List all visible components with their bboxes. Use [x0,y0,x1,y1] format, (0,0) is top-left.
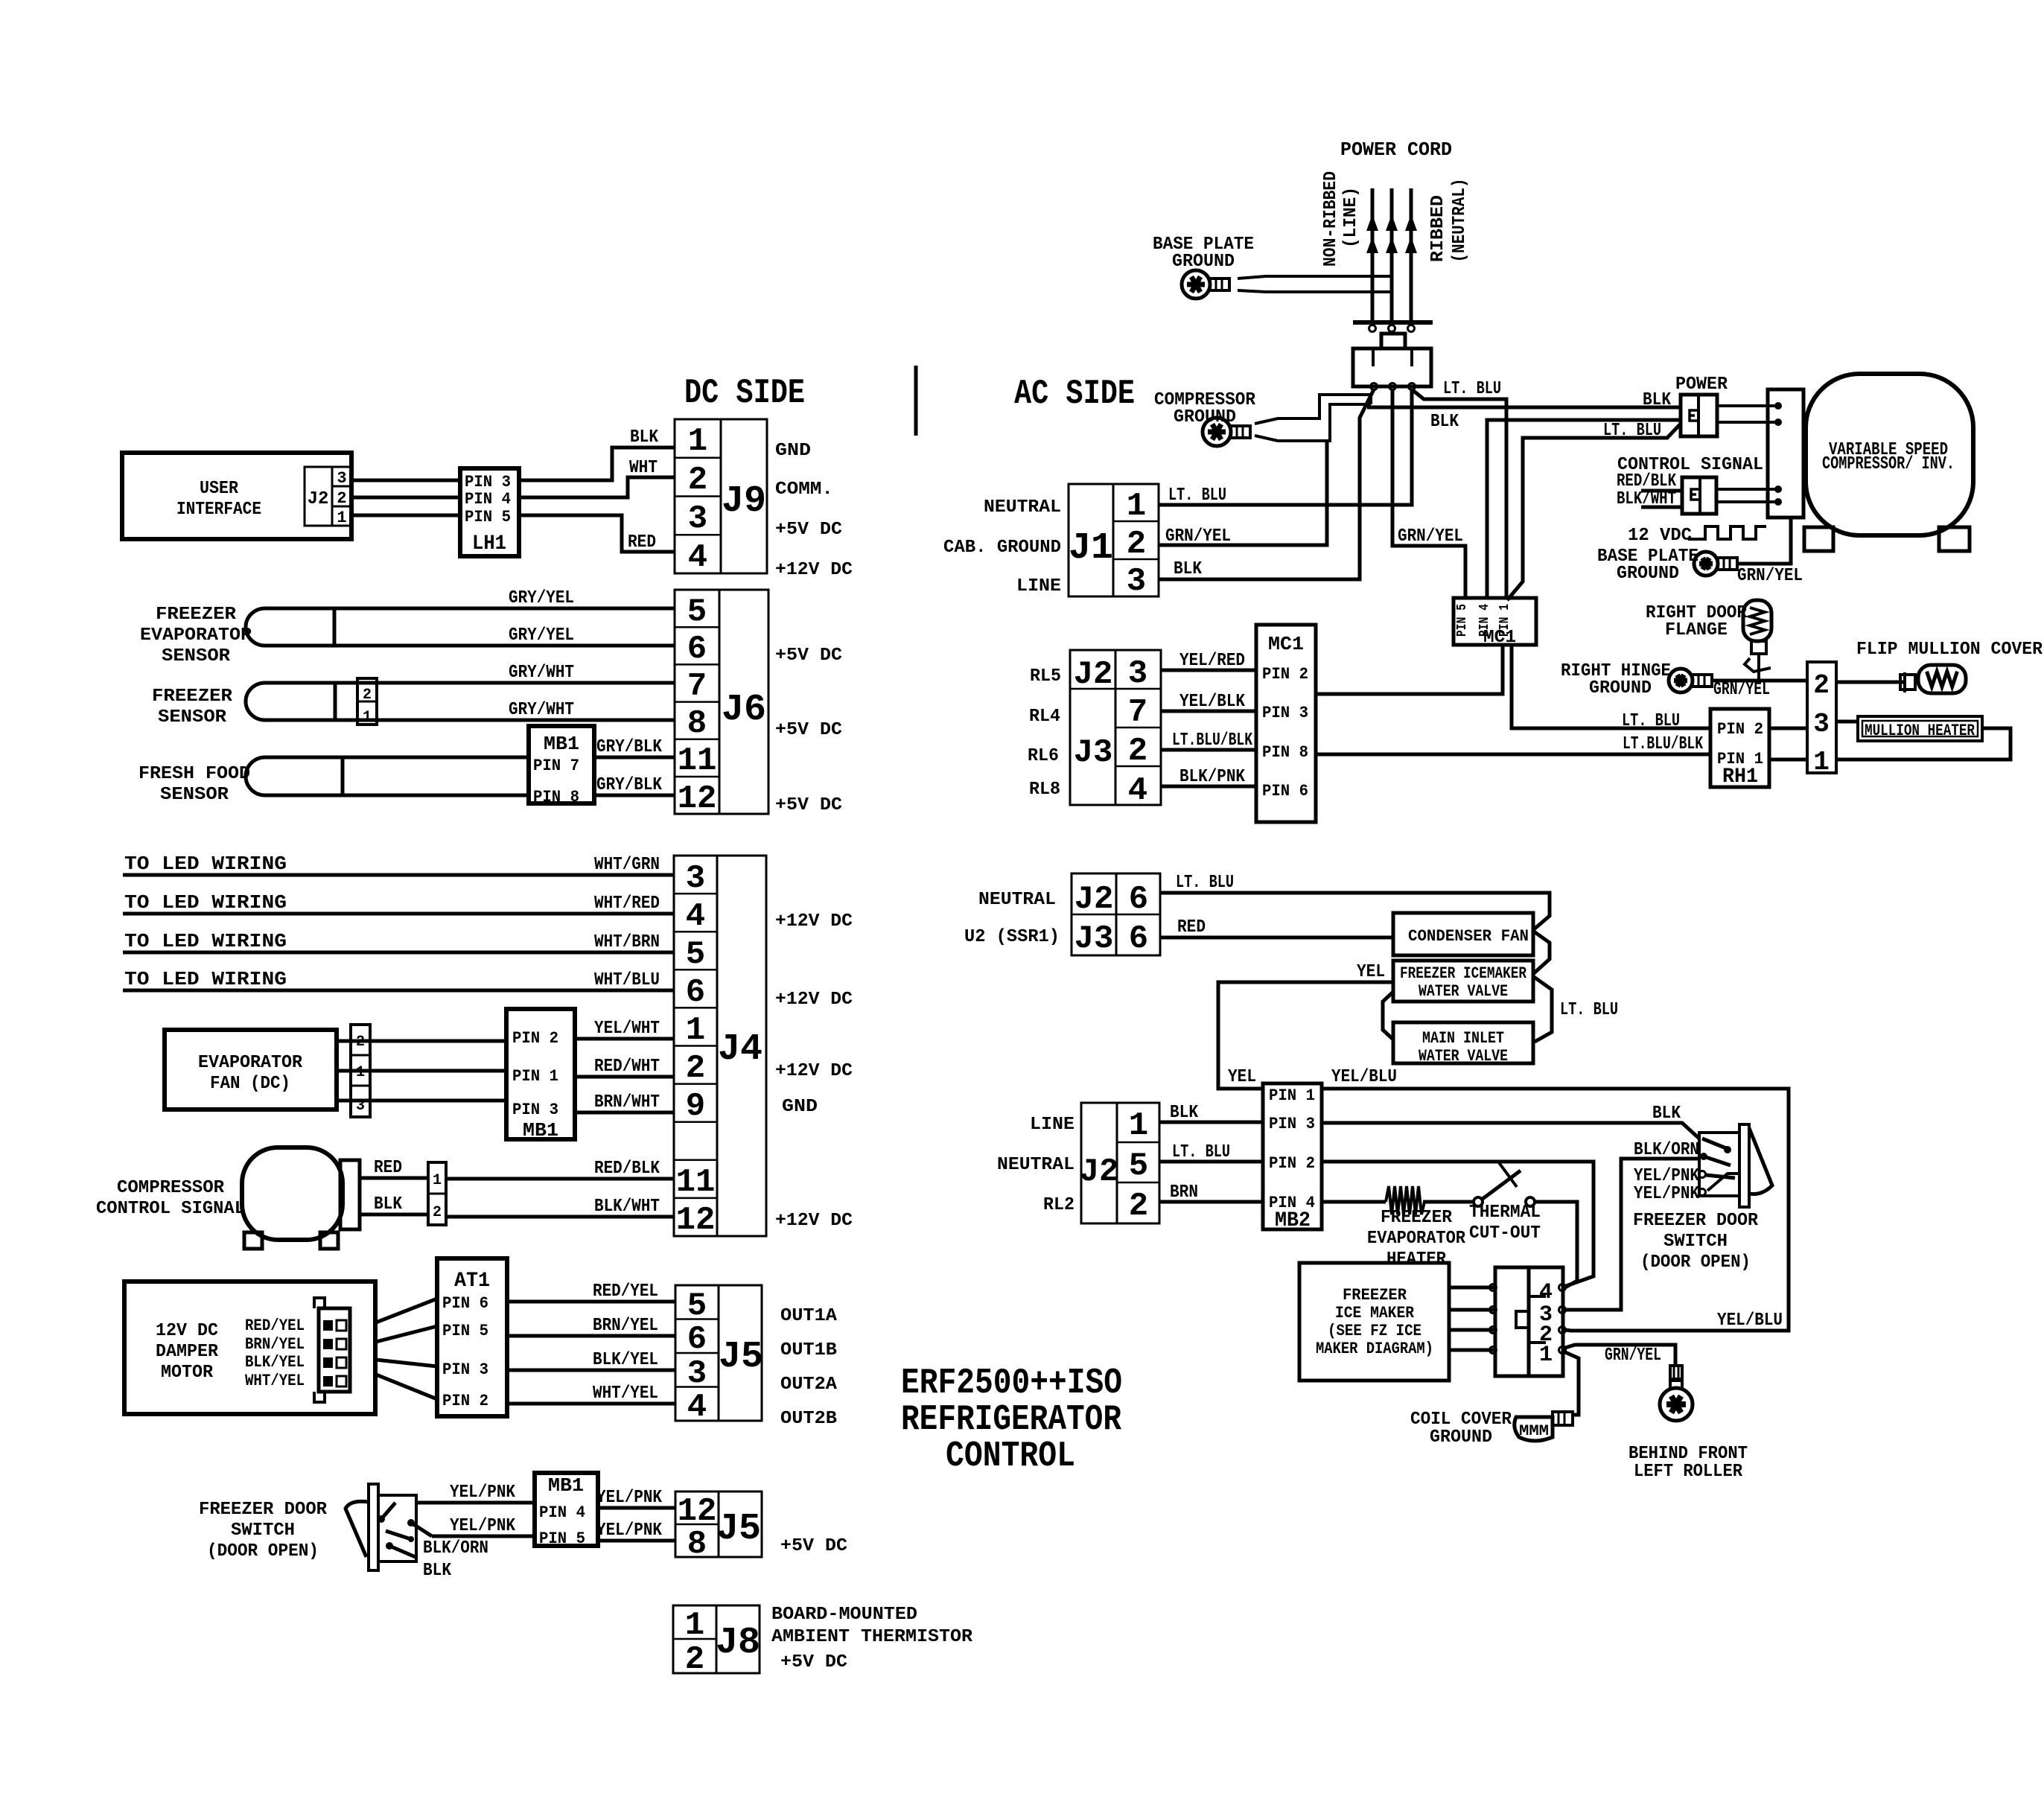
svg-text:BOARD-MOUNTED: BOARD-MOUNTED [771,1605,917,1625]
svg-text:OUT1A: OUT1A [780,1306,838,1326]
svg-text:PIN 1: PIN 1 [512,1067,558,1086]
wire LT. BLU MC1 loop to power relay [1507,424,1681,600]
svg-text:RED: RED [1177,917,1206,937]
svg-text:8: 8 [687,705,707,742]
svg-text:ERF2500++ISO: ERF2500++ISO [901,1363,1122,1404]
svg-text:LT.BLU/BLK: LT.BLU/BLK [1623,734,1703,754]
svg-text:WATER VALVE: WATER VALVE [1419,982,1508,1001]
svg-text:5: 5 [686,936,705,973]
svg-text:1: 1 [688,423,707,460]
wires evaporator fan to MB1 [337,1040,506,1043]
svg-text:BLK: BLK [1430,412,1459,432]
svg-text:DAMPER: DAMPER [156,1342,219,1362]
svg-text:TO LED WIRING: TO LED WIRING [124,930,287,952]
svg-text:2: 2 [685,1641,704,1678]
svg-text:+5V DC: +5V DC [775,795,842,815]
svg-text:12: 12 [676,1202,716,1239]
svg-text:BLK/ORN: BLK/ORN [423,1538,488,1559]
icemaker connector [1495,1267,1529,1376]
svg-text:3: 3 [686,860,705,897]
svg-text:4: 4 [687,1389,707,1426]
svg-text:YEL/RED: YEL/RED [1179,651,1245,671]
wire LT.BLU/BLK MC1 PIN 8 to RH1 PIN 1 [1316,753,1710,757]
svg-text:PIN 2: PIN 2 [1262,665,1308,684]
svg-text:RL6: RL6 [1028,746,1059,766]
svg-text:FAN (DC): FAN (DC) [210,1074,290,1094]
svg-text:BRN/WHT: BRN/WHT [594,1092,660,1112]
svg-text:6: 6 [687,631,707,668]
wire RED LH1 PIN5 to J9-4 [519,515,675,552]
svg-text:(DOOR OPEN): (DOOR OPEN) [207,1541,319,1561]
connector MB1 (sensor) [529,726,594,803]
svg-text:FLIP MULLION COVER: FLIP MULLION COVER [1856,640,2043,660]
svg-text:YEL/PNK: YEL/PNK [450,1483,516,1503]
wire BLK LH1 PIN3 to J9-1 [519,448,675,480]
connector J2/J3 relays [1070,650,1161,805]
svg-text:RIBBED: RIBBED [1428,195,1448,262]
svg-text:COIL COVER: COIL COVER [1410,1410,1512,1430]
wire GRN/YEL icemaker pin 1 to roller ground [1565,1345,1675,1366]
svg-text:+5V DC: +5V DC [775,520,842,540]
wire GRY/WHT sensor to J6-7 [335,681,675,685]
svg-text:(NEUTRAL): (NEUTRAL) [1450,179,1470,263]
variable speed compressor blob [1806,374,1973,535]
svg-text:WHT/YEL: WHT/YEL [593,1384,658,1404]
svg-text:3: 3 [1813,709,1830,739]
wire line contact to J1-3 (BLK) [1159,389,1374,579]
wire YEL/RED J2-3 to MC1 PIN 2 [1161,669,1256,672]
svg-text:BLK: BLK [1174,559,1203,579]
svg-text:4: 4 [686,898,705,935]
wire BLK to inline connector [360,1213,428,1217]
svg-text:6: 6 [1129,881,1148,918]
wire RED to inline connector [360,1177,428,1180]
wire RH1 PIN1 to connector-1 row [1769,758,1807,762]
svg-text:FREEZER DOOR: FREEZER DOOR [1633,1211,1759,1231]
wire WHT/YEL AT1 to J5-4 [507,1402,675,1406]
coil cover ground symbol [1515,1417,1553,1441]
svg-text:J2: J2 [1080,1153,1119,1191]
svg-text:WHT/BRN: WHT/BRN [594,932,660,952]
svg-text:+5V DC: +5V DC [780,1652,847,1672]
svg-text:PIN 7: PIN 7 [533,757,579,775]
svg-text:2: 2 [1128,733,1147,770]
svg-text:GROUND: GROUND [1589,678,1652,698]
svg-text:RH1: RH1 [1722,765,1758,789]
wire GRY/YEL sensor to J6-6 [334,644,675,648]
svg-text:NEUTRAL: NEUTRAL [984,497,1061,518]
wire LT. BLU neutral contact to MC1 PIN 1 [1412,389,1506,598]
svg-text:YEL/PNK: YEL/PNK [450,1516,516,1536]
svg-text:AC SIDE: AC SIDE [1014,375,1135,413]
svg-text:OUT2A: OUT2A [780,1375,838,1395]
svg-text:3: 3 [688,500,707,538]
svg-text:12: 12 [678,780,717,818]
svg-text:+5V DC: +5V DC [775,720,842,740]
power relay [1681,395,1717,436]
svg-text:LEFT ROLLER: LEFT ROLLER [1634,1462,1743,1482]
wire WHT/BLU to J4 [123,989,674,993]
svg-text:J1: J1 [1069,527,1113,570]
svg-text:CONDENSER FAN: CONDENSER FAN [1408,927,1529,946]
wire BRN J2-2 to MB2 PIN 4 [1159,1200,1263,1204]
svg-text:J3: J3 [1074,920,1114,958]
wire LT. BLU J2-6 to condenser fan bracket [1160,893,1550,929]
svg-text:GND: GND [775,441,811,461]
svg-text:RED: RED [628,532,656,553]
svg-text:GRN/YEL: GRN/YEL [1737,566,1803,586]
connector AT1 [437,1258,507,1416]
mullion heater box [1858,716,1982,741]
freezer door switch symbol (AC) [1699,1133,1739,1196]
svg-text:+12V DC: +12V DC [775,911,853,932]
wire J2-3 to LH1 PIN 3 [351,479,460,483]
svg-text:FREEZER: FREEZER [1343,1286,1407,1305]
svg-text:LT. BLU: LT. BLU [1443,379,1501,399]
svg-text:1: 1 [1127,488,1146,525]
freezer sensor bulb [246,683,265,720]
wire GRY/BLK MB1 PIN8 to J6-12 [594,794,675,797]
svg-text:5: 5 [687,1287,707,1325]
wire BRN MB2 PIN4 to freezer evaporator heater [1322,1200,1386,1204]
svg-text:J2: J2 [308,489,329,509]
wire LT.BLU/BLK to MC1 PIN 8 [1161,748,1256,752]
svg-text:RED/BLK: RED/BLK [594,1159,660,1179]
svg-text:PIN 3: PIN 3 [1262,704,1308,722]
svg-text:FREEZER DOOR: FREEZER DOOR [199,1500,328,1520]
svg-text:(LINE): (LINE) [1341,187,1361,248]
control relay contacts to compressor connector [1716,488,1778,491]
svg-text:PIN 1: PIN 1 [1269,1086,1315,1105]
svg-text:BLK: BLK [1170,1103,1199,1123]
svg-text:RL5: RL5 [1030,666,1061,687]
svg-text:6: 6 [687,1321,707,1358]
wires fresh food sensor to MB1 [343,756,529,760]
svg-text:LT. BLU: LT. BLU [1560,1000,1618,1020]
svg-text:NEUTRAL: NEUTRAL [978,890,1056,910]
svg-text:PIN 5: PIN 5 [442,1322,488,1340]
svg-text:4: 4 [688,539,707,576]
freezer ice maker box [1299,1263,1449,1381]
wire RED/BLK to J4-11 [446,1177,674,1181]
wire BLK MC1 PIN4 to power relay [1487,420,1681,598]
wire WHT LH1 PIN4 to J9-2 [519,477,675,497]
svg-text:YEL/PNK: YEL/PNK [1634,1184,1700,1204]
wires damper motor to AT1 [376,1299,437,1322]
freezer evaporator sensor bulb [246,608,265,646]
wire RED J3-6 to condenser fan [1160,936,1393,940]
svg-text:RL8: RL8 [1029,780,1060,800]
svg-text:SENSOR: SENSOR [160,785,229,805]
svg-text:3: 3 [1127,563,1146,600]
svg-text:6: 6 [686,974,705,1011]
svg-text:LH1: LH1 [472,532,506,555]
connector MB2 [1263,1083,1322,1229]
evaporator fan box [165,1030,337,1109]
svg-text:PIN 2: PIN 2 [512,1029,558,1048]
svg-text:MAIN INLET: MAIN INLET [1422,1029,1504,1048]
power cord terminal bar [1353,320,1433,325]
svg-text:OUT1B: OUT1B [780,1340,837,1360]
wire BRN/WHT MB1 to J4-9 [575,1111,674,1115]
wire GRN/YEL base plate ground to compressor connector [1737,516,1791,564]
wire BLK/WHT into control relay [1641,506,1682,509]
connector J6 [675,590,768,814]
bracket linking water valve feeds [1383,992,1393,1040]
svg-text:PIN 2: PIN 2 [442,1392,488,1410]
svg-text:PIN 6: PIN 6 [1262,782,1308,800]
svg-text:1: 1 [1539,1343,1553,1368]
svg-text:1: 1 [337,509,346,527]
svg-text:RED/BLK: RED/BLK [1617,471,1676,491]
condenser fan box [1393,913,1533,955]
svg-text:3: 3 [687,1355,707,1392]
svg-text:BLK: BLK [374,1194,403,1214]
compressor connector box [1768,389,1803,518]
svg-text:YEL/PNK: YEL/PNK [596,1521,663,1541]
svg-text:MB2: MB2 [1275,1209,1311,1232]
svg-text:TO LED WIRING: TO LED WIRING [124,853,287,875]
svg-text:BLK: BLK [423,1561,452,1581]
svg-text:MAKER DIAGRAM): MAKER DIAGRAM) [1316,1340,1433,1358]
svg-text:RL2: RL2 [1043,1195,1074,1215]
svg-text:GROUND: GROUND [1430,1427,1492,1448]
svg-text:BLK: BLK [1643,390,1672,410]
hollow ground wire to power cord [1238,276,1392,278]
connector MB1 (fan) [506,1009,575,1139]
wire GRN/YEL J1-2 up to ground wire [1159,441,1327,545]
svg-text:BLK: BLK [630,427,659,448]
wires ice maker to connector [1449,1286,1495,1290]
svg-text:LT. BLU: LT. BLU [1622,711,1680,731]
svg-text:GRY/WHT: GRY/WHT [509,700,574,720]
svg-text:FREEZER: FREEZER [1381,1208,1453,1228]
svg-text:(DOOR OPEN): (DOOR OPEN) [1640,1252,1751,1273]
svg-text:RED/WHT: RED/WHT [594,1057,660,1077]
svg-text:PIN 4: PIN 4 [465,490,511,509]
wire WHT/RED to J4 [123,912,674,916]
connector MB1 (door switch) [535,1473,598,1546]
svg-text:PIN 3: PIN 3 [442,1360,488,1379]
svg-text:2: 2 [363,687,372,704]
svg-text:11: 11 [678,742,717,780]
svg-text:COMPRESSOR: COMPRESSOR [117,1178,225,1198]
thermal cut-out switch [1474,1197,1483,1206]
wire GRY/WHT sensor to J6-8 [335,719,675,722]
wire RED/WHT MB1 to J4-2 [575,1075,674,1079]
svg-text:FRESH FOOD: FRESH FOOD [139,764,250,784]
wire YEL/PNK MB1 to J5-8 [598,1539,675,1543]
svg-text:MB1: MB1 [544,733,579,755]
svg-text:2: 2 [1129,1188,1148,1225]
connector J1 [1069,484,1159,596]
svg-text:FREEZER ICEMAKER: FREEZER ICEMAKER [1400,964,1527,983]
connector RH1 [1710,709,1769,787]
wire WHT/BRN to J4 [123,951,674,955]
svg-text:2: 2 [337,489,346,508]
svg-text:GRN/YEL: GRN/YEL [1605,1346,1661,1366]
svg-text:HEATER: HEATER [1386,1249,1447,1270]
power cord ground wire [1390,188,1394,322]
svg-text:2: 2 [686,1050,705,1087]
svg-text:WHT/BLU: WHT/BLU [594,970,660,990]
svg-text:3: 3 [1128,655,1147,693]
user interface box [122,453,351,539]
svg-text:7: 7 [1128,694,1147,731]
wire LT. BLU MC1 power to RH1 PIN 2 [1512,645,1710,728]
wire connector-3 to mullion heater [1836,720,1858,724]
wire GRN/YEL ground contact down [1392,389,1465,598]
svg-text:2: 2 [433,1204,442,1221]
svg-text:12 VDC: 12 VDC [1628,526,1692,546]
connector J8 [673,1605,760,1673]
svg-text:MC1: MC1 [1483,628,1516,648]
svg-text:J4: J4 [718,1028,762,1071]
svg-text:NEUTRAL: NEUTRAL [997,1155,1074,1175]
svg-text:+12V DC: +12V DC [775,1211,853,1231]
svg-text:EVAPORATOR: EVAPORATOR [140,625,252,646]
svg-text:CONTROL: CONTROL [946,1436,1075,1477]
svg-text:MMM: MMM [1519,1423,1549,1440]
wire RED/YEL AT1 to J5-5 [507,1300,675,1304]
svg-text:BLK/WHT: BLK/WHT [1617,489,1676,509]
svg-text:BRN/YEL: BRN/YEL [245,1335,305,1354]
compressor ground lug [1203,418,1231,446]
svg-text:BLK/YEL: BLK/YEL [593,1350,658,1370]
svg-text:PIN 5: PIN 5 [1455,604,1470,637]
svg-text:GRN/YEL: GRN/YEL [1398,526,1463,547]
svg-text:GROUND: GROUND [1617,564,1679,584]
svg-text:PIN 5: PIN 5 [539,1529,585,1548]
svg-text:TO LED WIRING: TO LED WIRING [124,968,287,990]
svg-text:WHT/RED: WHT/RED [594,894,660,914]
svg-text:2: 2 [688,462,707,499]
svg-text:J6: J6 [722,689,766,731]
svg-text:USER: USER [200,479,239,499]
wire GRY/YEL sensor to J6-5 [334,607,675,611]
svg-text:SWITCH: SWITCH [1663,1232,1728,1252]
svg-text:J5: J5 [716,1508,761,1550]
svg-text:WHT/GRN: WHT/GRN [594,855,660,875]
svg-text:8: 8 [687,1526,707,1563]
wire LT. BLU MB2 PIN2 to icemaker pin 4 [1322,1162,1594,1286]
svg-text:AMBIENT THERMISTOR: AMBIENT THERMISTOR [771,1627,973,1647]
svg-text:WATER VALVE: WATER VALVE [1419,1047,1508,1066]
svg-text:NON-RIBBED: NON-RIBBED [1321,171,1341,267]
svg-text:FLANGE: FLANGE [1665,620,1728,640]
right door flange symbol [1743,600,1771,641]
wire YEL/PNK MB1 to J5-12 [598,1506,675,1510]
svg-text:WHT: WHT [629,458,658,478]
svg-text:EVAPORATOR: EVAPORATOR [1367,1229,1466,1249]
divider line between DC and AC side [914,366,918,436]
freezer door switch symbol (DC) [369,1484,378,1570]
svg-text:YEL: YEL [1228,1067,1256,1087]
svg-text:U2 (SSR1): U2 (SSR1) [964,927,1060,947]
connector 2/3/1 mullion [1807,662,1836,773]
svg-text:1: 1 [363,709,372,726]
svg-text:+5V DC: +5V DC [775,646,842,666]
svg-text:PIN 3: PIN 3 [465,473,511,491]
wire heater to thermal cut-out [1423,1200,1474,1204]
svg-text:(SEE FZ ICE: (SEE FZ ICE [1328,1322,1421,1340]
svg-text:YEL/BLK: YEL/BLK [1179,692,1246,712]
svg-text:+12V DC: +12V DC [775,990,853,1010]
wire mullion heater loop to connector-1 [1836,728,2010,760]
svg-text:J8: J8 [716,1622,760,1664]
wire J2-2 to LH1 PIN 4 [351,496,460,500]
svg-text:PIN 2: PIN 2 [1717,720,1763,739]
svg-text:J2: J2 [1074,881,1114,918]
connector J9 [675,419,767,573]
svg-text:OUT2B: OUT2B [780,1409,837,1429]
svg-text:11: 11 [676,1164,716,1201]
damper motor connector symbol [319,1308,350,1392]
connector LH1 [460,468,519,556]
svg-text:2: 2 [1127,526,1146,563]
svg-text:PIN 2: PIN 2 [1269,1154,1315,1173]
connector J2/J3 ssr [1072,873,1160,955]
power cord line wire [1371,188,1375,322]
svg-text:5: 5 [1129,1147,1148,1185]
behind front left roller ground lug [1670,1366,1682,1379]
svg-text:12: 12 [678,1493,717,1530]
svg-text:PIN 6: PIN 6 [442,1294,488,1313]
freezer icemaker water valve box [1393,961,1533,1002]
compressor connector bar [340,1160,360,1229]
wire RH1 PIN2 to connector-3 row [1769,727,1807,730]
svg-text:GROUND: GROUND [1172,252,1235,272]
flip mullion cover symbol [1903,672,1906,693]
svg-text:LINE: LINE [1016,576,1061,596]
svg-text:YEL: YEL [1357,962,1385,982]
wire LT. BLU bracket linking valves [1534,932,1550,973]
svg-text:6: 6 [1129,920,1148,958]
base plate ground lug (left) [1182,270,1210,299]
svg-text:7: 7 [687,668,707,705]
svg-text:LINE: LINE [1030,1115,1074,1135]
svg-text:PIN 3: PIN 3 [512,1101,558,1119]
svg-text:CAB. GROUND: CAB. GROUND [943,538,1061,558]
svg-text:5: 5 [687,593,707,631]
wire thermal cut-out to icemaker pin 4 [1535,1202,1577,1287]
main inlet water valve box [1393,1022,1533,1063]
wire BLK/YEL AT1 to J5-3 [507,1369,675,1372]
svg-text:MOTOR: MOTOR [161,1363,214,1383]
svg-text:MB1: MB1 [548,1474,584,1497]
svg-text:YEL/WHT: YEL/WHT [594,1019,660,1039]
svg-text:ICE MAKER: ICE MAKER [1335,1304,1415,1322]
svg-text:INTERFACE: INTERFACE [176,500,261,520]
svg-text:2: 2 [1813,670,1830,701]
svg-text:RED: RED [374,1158,402,1178]
svg-text:RED/YEL: RED/YEL [593,1282,658,1302]
wire BLK/ORN switch to icemaker pin 3 [1565,1159,1699,1310]
svg-text:GND: GND [782,1097,818,1117]
svg-text:CUT-OUT: CUT-OUT [1469,1223,1541,1244]
svg-text:BRN: BRN [1170,1182,1198,1203]
svg-text:POWER CORD: POWER CORD [1340,139,1452,161]
svg-text:+5V DC: +5V DC [780,1536,847,1556]
svg-text:LT.BLU/BLK: LT.BLU/BLK [1172,730,1252,751]
svg-text:+12V DC: +12V DC [775,1061,853,1081]
evaporator fan inline connector 2/1/3 [351,1025,370,1117]
svg-text:FREEZER: FREEZER [156,605,237,625]
svg-text:PIN 8: PIN 8 [533,788,579,806]
compressor feet (AC) [1804,527,1833,551]
svg-text:MULLION HEATER: MULLION HEATER [1865,722,1975,740]
right hinge ground lug [1669,669,1693,693]
